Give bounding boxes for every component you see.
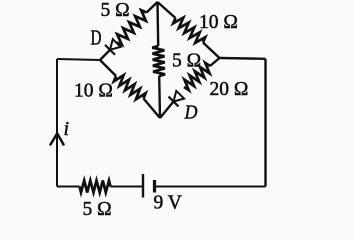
wire left side vertical bbox=[56, 59, 58, 187]
wire 5ohm resistor to battery bbox=[111, 186, 143, 188]
svg-text:D: D bbox=[91, 26, 102, 50]
resistor 10ohm bottom-left bbox=[114, 75, 146, 99]
wire resistor to top vertex bbox=[147, 2, 158, 13]
wire left-vertex to diode D1 bbox=[100, 50, 110, 60]
wire middle resistor to bottom vertex bbox=[158, 76, 161, 118]
resistor 5ohm middle bbox=[152, 46, 165, 76]
resistor 10ohm top-right bbox=[173, 18, 205, 43]
svg-text:5 Ω: 5 Ω bbox=[101, 0, 130, 21]
svg-text:i: i bbox=[64, 118, 70, 140]
svg-text:20 Ω: 20 Ω bbox=[210, 79, 249, 100]
svg-text:9 V: 9 V bbox=[154, 193, 182, 214]
wire top-right corner to right vertex bbox=[220, 57, 266, 60]
wire bottom-left to 5ohm resistor bbox=[57, 186, 80, 188]
resistor 5ohm top-left bbox=[117, 10, 147, 45]
wire bottom vertex to diode D2 bbox=[160, 102, 174, 119]
wire battery to bottom-right corner bbox=[155, 186, 266, 188]
wire top vertex down to middle 5ohm resistor bbox=[156, 2, 159, 46]
wire right side vertical bbox=[264, 59, 266, 187]
svg-text:D: D bbox=[184, 102, 198, 124]
wire 10ohm resistor to bottom vertex bbox=[144, 99, 161, 119]
svg-text:10 Ω: 10 Ω bbox=[199, 12, 238, 33]
resistor 5ohm bottom bbox=[80, 181, 111, 193]
current arrow i (pointing up) bbox=[51, 134, 64, 145]
svg-text:10 Ω: 10 Ω bbox=[74, 81, 113, 102]
svg-text:5 Ω: 5 Ω bbox=[83, 199, 112, 220]
battery 9V short plate bbox=[153, 180, 156, 193]
wire left vertex to top-left corner bbox=[57, 59, 100, 60]
diode D (bottom-right) bbox=[174, 91, 185, 102]
resistor 20ohm bottom-right bbox=[184, 63, 210, 90]
wire left vertex to 10ohm resistor bbox=[100, 60, 116, 76]
wire 20ohm resistor to right vertex bbox=[210, 58, 220, 66]
diode D (top-left) bbox=[110, 39, 121, 50]
svg-text:5 Ω: 5 Ω bbox=[172, 51, 201, 72]
battery 9V long plate bbox=[142, 174, 144, 198]
wire top vertex to 10ohm resistor bbox=[158, 2, 176, 18]
wire 10ohm resistor to right vertex bbox=[203, 43, 220, 59]
